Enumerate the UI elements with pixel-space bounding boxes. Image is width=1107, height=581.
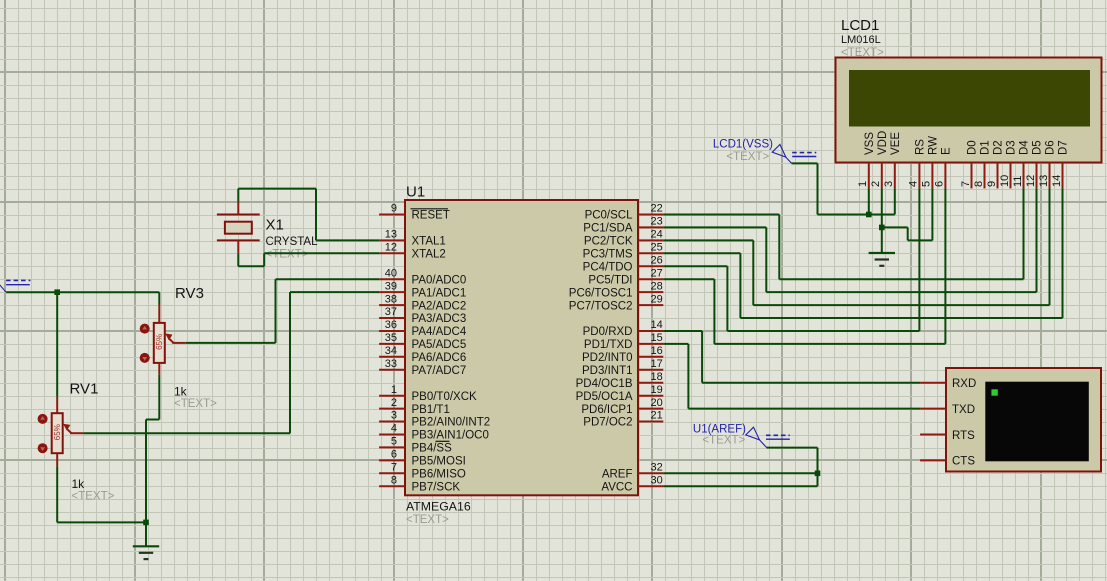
svg-text:D3: D3 [1006,140,1018,155]
svg-text:PD5/OC1A: PD5/OC1A [576,391,633,403]
svg-text:D4: D4 [1019,140,1031,155]
svg-text:21: 21 [651,410,663,422]
svg-text:TXD: TXD [952,404,975,416]
svg-text:16: 16 [651,345,663,357]
svg-text:PD1/TXD: PD1/TXD [584,339,633,351]
svg-text:LM016L: LM016L [841,34,881,46]
svg-text:RV3: RV3 [175,285,204,302]
svg-text:36: 36 [385,319,397,331]
svg-text:8: 8 [391,474,397,486]
svg-text:1k: 1k [174,385,188,399]
svg-text:<TEXT>: <TEXT> [174,398,217,410]
svg-text:PC7/TOSC2: PC7/TOSC2 [569,300,633,312]
svg-text:D1: D1 [980,140,992,155]
svg-text:33: 33 [385,358,397,370]
svg-text:14: 14 [1051,175,1063,187]
svg-text:PB0/T0/XCK: PB0/T0/XCK [412,391,478,403]
svg-text:PB3/AIN1/OC0: PB3/AIN1/OC0 [412,430,489,442]
svg-text:D7: D7 [1058,140,1070,155]
svg-text:65%: 65% [53,424,62,440]
svg-text:PA1/ADC1: PA1/ADC1 [412,287,467,299]
svg-text:PC5/TDI: PC5/TDI [588,274,632,286]
svg-text:RXD: RXD [952,378,976,390]
svg-text:AREF: AREF [602,469,633,481]
svg-text:PB6/MISO: PB6/MISO [412,469,466,481]
svg-text:65%: 65% [155,334,164,350]
svg-text:PB7/SCK: PB7/SCK [412,481,461,493]
svg-text:PD7/OC2: PD7/OC2 [583,417,632,429]
svg-text:18: 18 [651,371,663,383]
svg-text:26: 26 [651,255,663,267]
svg-text:6: 6 [934,181,946,187]
svg-text:PA0/ADC0: PA0/ADC0 [412,274,467,286]
svg-text:37: 37 [385,306,397,318]
svg-text:27: 27 [651,267,663,279]
svg-text:PC3/TMS: PC3/TMS [583,249,633,261]
svg-text:PC1/SDA: PC1/SDA [583,223,633,235]
svg-text:6: 6 [391,449,397,461]
svg-text:PA7/ADC7: PA7/ADC7 [412,365,467,377]
svg-text:40: 40 [385,267,397,279]
svg-text:PB2/AIN0/INT2: PB2/AIN0/INT2 [412,417,491,429]
svg-text:ATMEGA16: ATMEGA16 [406,500,471,514]
svg-text:PD3/INT1: PD3/INT1 [582,365,633,377]
svg-text:XTAL2: XTAL2 [412,249,446,261]
svg-text:17: 17 [651,358,663,370]
svg-text:PA4/ADC4: PA4/ADC4 [412,326,467,338]
svg-text:VSS: VSS [864,132,876,155]
svg-text:RS: RS [914,139,926,155]
svg-text:D5: D5 [1032,140,1044,155]
svg-text:VDD: VDD [877,131,889,155]
svg-text:30: 30 [651,474,663,486]
svg-text:PA2/ADC2: PA2/ADC2 [412,300,467,312]
svg-text:9: 9 [986,181,998,187]
svg-text:PA3/ADC3: PA3/ADC3 [412,313,467,325]
svg-text:7: 7 [391,462,397,474]
svg-text:<TEXT>: <TEXT> [266,249,309,261]
svg-text:LCD1(VSS): LCD1(VSS) [713,138,773,150]
svg-text:PC4/TDO: PC4/TDO [583,262,633,274]
svg-text:34: 34 [385,345,397,357]
svg-text:13: 13 [385,229,397,241]
svg-text:5: 5 [921,181,933,187]
svg-text:XTAL1: XTAL1 [412,236,446,248]
svg-text:24: 24 [651,229,663,241]
svg-text:23: 23 [651,216,663,228]
svg-text:7: 7 [960,181,972,187]
svg-text:11: 11 [1012,176,1024,187]
svg-text:12: 12 [1025,175,1037,187]
svg-text:PC0/SCL: PC0/SCL [585,210,634,222]
svg-text:<TEXT>: <TEXT> [726,151,769,163]
svg-text:PD4/OC1B: PD4/OC1B [576,378,633,390]
svg-text:PD2/INT0: PD2/INT0 [582,352,633,364]
svg-text:28: 28 [651,280,663,292]
svg-text:35: 35 [385,332,397,344]
svg-text:PC2/TCK: PC2/TCK [584,236,633,248]
svg-text:RV1: RV1 [70,381,99,398]
svg-text:14: 14 [651,319,663,331]
svg-text:2: 2 [391,397,397,409]
svg-text:AVCC: AVCC [601,481,632,493]
svg-text:D6: D6 [1045,140,1057,155]
svg-text:<TEXT>: <TEXT> [406,514,449,526]
svg-text:<TEXT>: <TEXT> [702,435,745,447]
svg-text:PB4/SS: PB4/SS [412,443,453,455]
svg-text:PD6/ICP1: PD6/ICP1 [581,404,632,416]
svg-text:5: 5 [391,436,397,448]
svg-text:38: 38 [385,293,397,305]
svg-text:PB1/T1: PB1/T1 [412,404,450,416]
svg-text:25: 25 [651,242,663,254]
svg-text:PA5/ADC5: PA5/ADC5 [412,339,467,351]
svg-text:<TEXT>: <TEXT> [841,47,884,59]
svg-text:2: 2 [870,181,882,187]
svg-text:39: 39 [385,280,397,292]
svg-text:CRYSTAL: CRYSTAL [266,236,319,248]
svg-text:19: 19 [651,384,663,396]
svg-text:29: 29 [651,293,663,305]
svg-text:D0: D0 [967,140,979,155]
svg-text:PA6/ADC6: PA6/ADC6 [412,352,467,364]
svg-text:VEE: VEE [890,132,902,155]
svg-text:U1: U1 [406,184,425,201]
svg-text:32: 32 [651,462,663,474]
svg-text:D2: D2 [993,140,1005,155]
svg-text:PD0/RXD: PD0/RXD [583,326,633,338]
svg-text:PB5/MOSI: PB5/MOSI [412,456,466,468]
svg-text:PC6/TOSC1: PC6/TOSC1 [569,287,633,299]
svg-text:20: 20 [651,397,663,409]
svg-text:10: 10 [999,175,1011,187]
svg-text:RW: RW [927,136,939,155]
svg-text:X1: X1 [266,217,284,234]
svg-text:4: 4 [908,181,920,187]
svg-text:1: 1 [857,181,869,187]
svg-text:1: 1 [391,384,397,396]
svg-text:3: 3 [883,181,895,187]
svg-text:1k: 1k [72,477,86,491]
svg-text:4: 4 [391,423,397,435]
svg-text:RTS: RTS [952,430,975,442]
svg-text:13: 13 [1038,175,1050,187]
svg-text:22: 22 [651,203,663,215]
svg-text:12: 12 [385,242,397,254]
svg-text:8: 8 [973,181,985,187]
svg-text:15: 15 [651,332,663,344]
svg-text:E: E [940,147,952,155]
svg-text:<TEXT>: <TEXT> [72,491,115,503]
svg-text:3: 3 [391,410,397,422]
svg-text:9: 9 [391,203,397,215]
svg-text:RESET: RESET [412,210,450,222]
svg-text:CTS: CTS [952,456,975,468]
svg-text:LCD1: LCD1 [841,17,879,34]
